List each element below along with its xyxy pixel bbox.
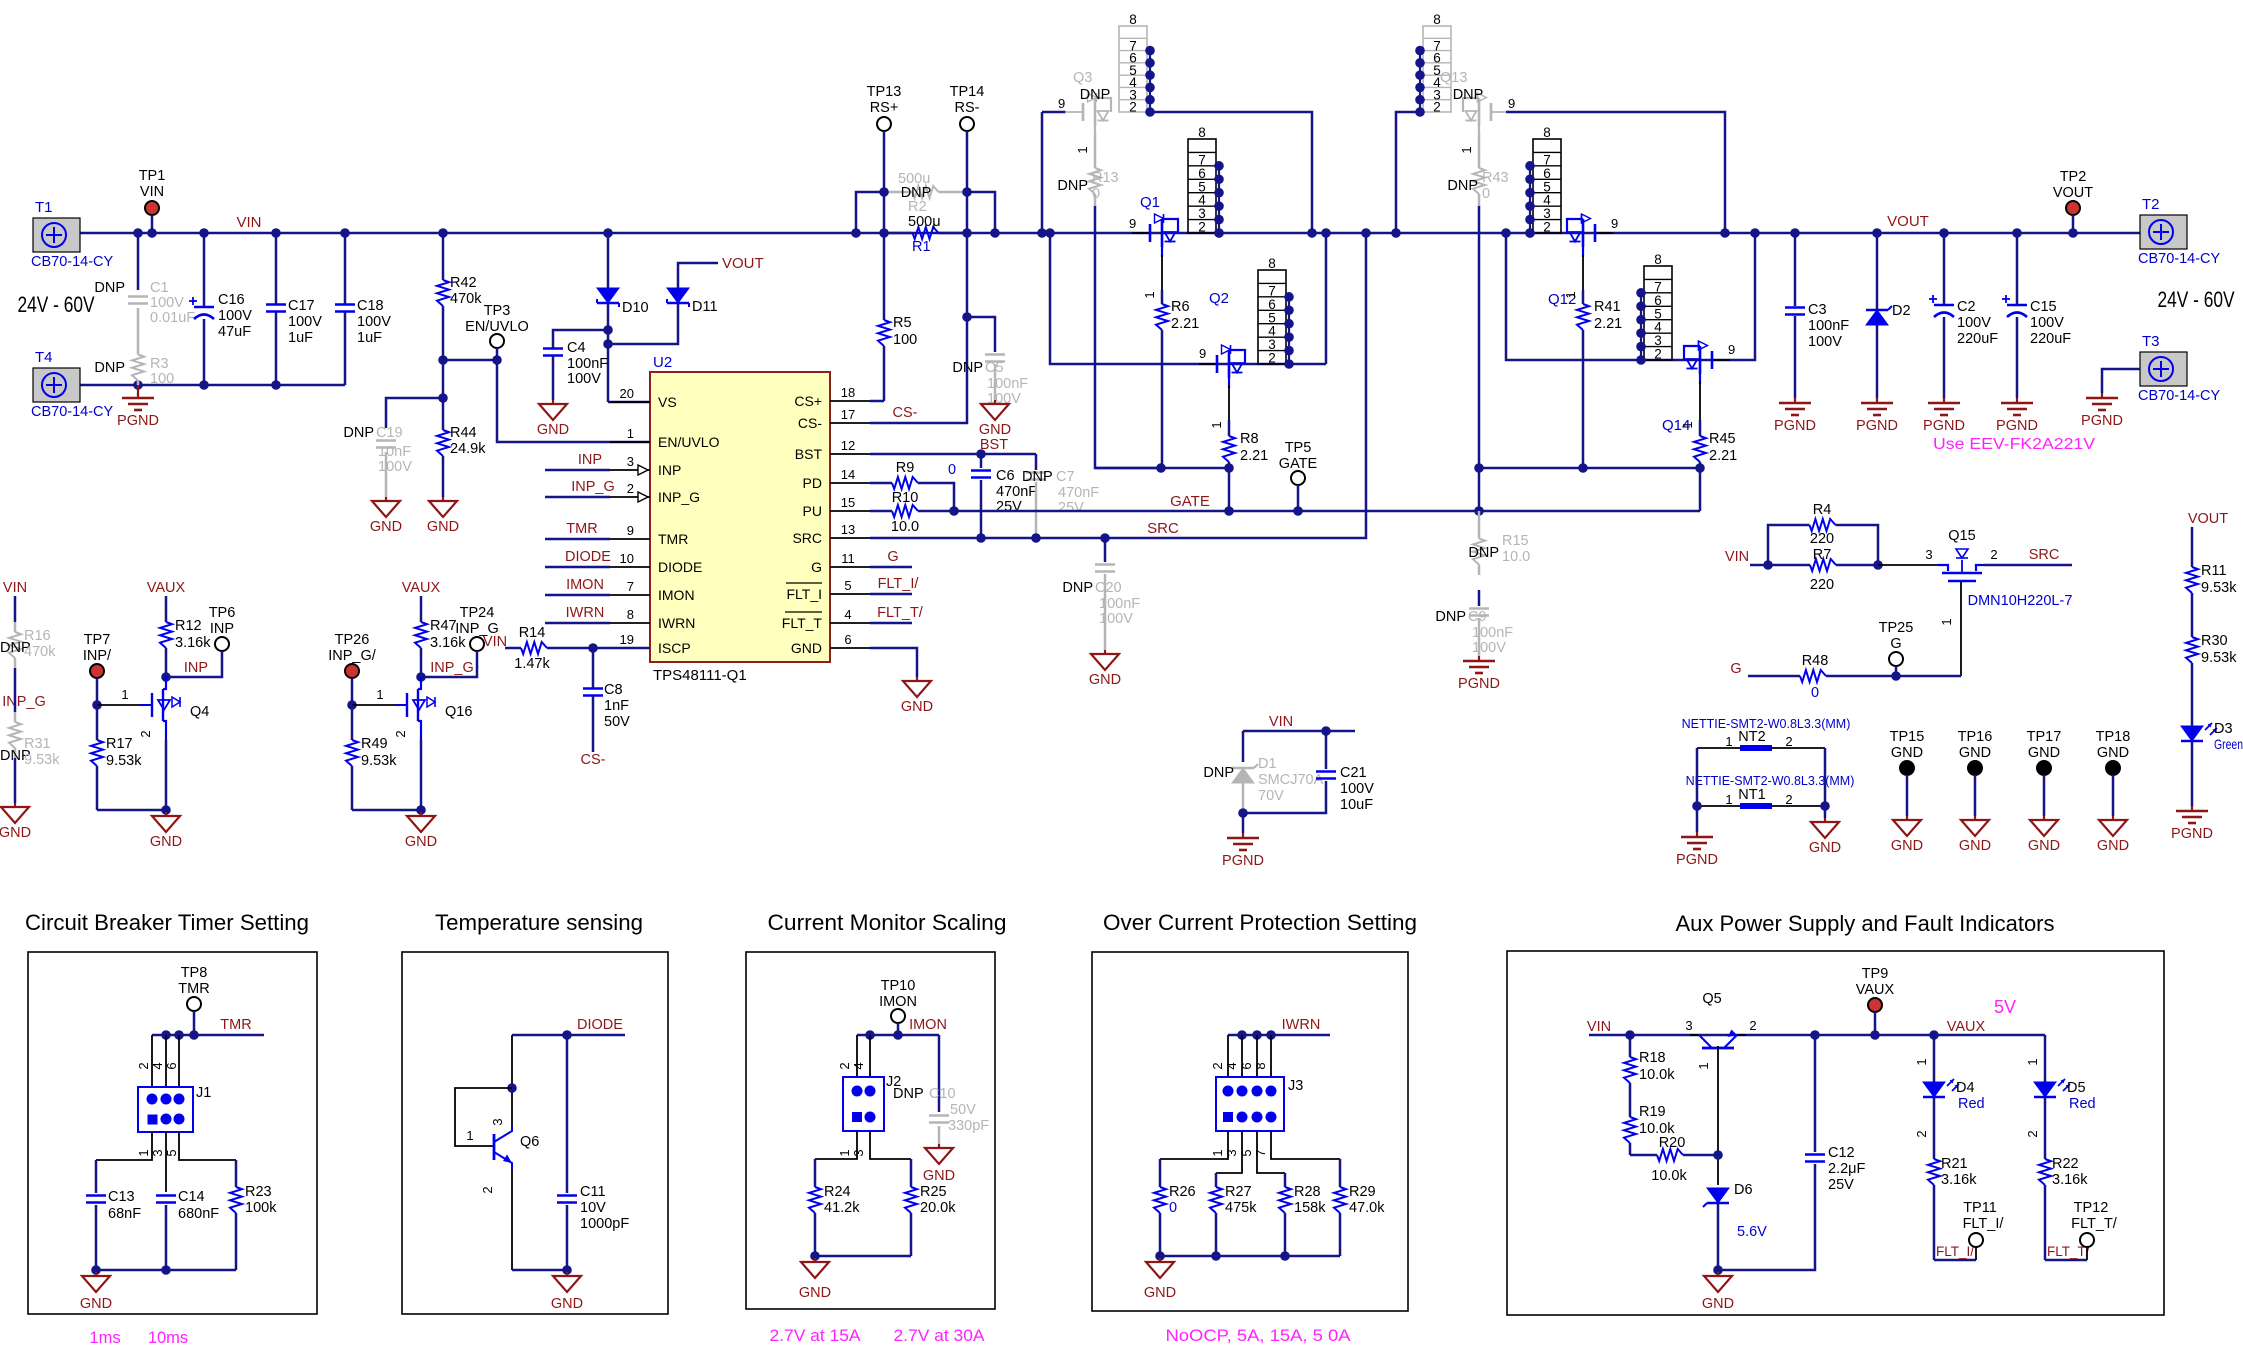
svg-text:2.7V at 15A: 2.7V at 15A: [770, 1327, 861, 1345]
gnd rail box2: [512, 1269, 567, 1272]
resistor R20 10.0k: [1630, 1154, 1657, 1157]
svg-text:Q6: Q6: [520, 1134, 539, 1150]
svg-text:50V: 50V: [604, 714, 630, 730]
svg-text:GND: GND: [537, 422, 569, 438]
ground PGND under C3: [1794, 398, 1796, 403]
resistor R29 47.0k: [1339, 1159, 1342, 1187]
resistor R28 158k: [1284, 1173, 1287, 1187]
svg-text:47uF: 47uF: [218, 324, 251, 340]
capacitor C1 DNP / resistor R3 DNP column: [133, 228, 143, 238]
svg-text:R15: R15: [1502, 533, 1529, 549]
svg-text:PGND: PGND: [117, 413, 159, 429]
svg-text:158k: 158k: [1294, 1200, 1326, 1216]
svg-text:2: 2: [1654, 347, 1662, 362]
svg-text:TP12: TP12: [2074, 1200, 2109, 1216]
svg-text:PU: PU: [803, 503, 822, 519]
svg-text:Q15: Q15: [1948, 528, 1975, 544]
svg-text:R47: R47: [430, 618, 457, 634]
svg-text:10V: 10V: [580, 1200, 606, 1216]
svg-text:IWRN: IWRN: [1282, 1017, 1321, 1033]
svg-text:Temperature sensing: Temperature sensing: [435, 910, 643, 935]
resistor R49 9.53k: [351, 705, 354, 740]
svg-text:9: 9: [1611, 216, 1618, 231]
svg-text:100V: 100V: [218, 308, 252, 324]
svg-text:CB70-14-CY: CB70-14-CY: [2138, 388, 2221, 404]
svg-text:R16: R16: [24, 628, 51, 644]
IC U2 TPS48111-Q1 body: [650, 372, 830, 662]
svg-text:5: 5: [844, 578, 851, 593]
svg-text:6: 6: [844, 632, 851, 647]
resistor R26 0: [1159, 1159, 1162, 1187]
resistor R18 10.0k: [1629, 1035, 1632, 1057]
svg-text:GND: GND: [405, 834, 437, 850]
svg-text:2.21: 2.21: [1594, 316, 1622, 332]
svg-text:DMN10H220L-7: DMN10H220L-7: [1968, 593, 2073, 609]
header H3 (Q3 gate resistor header, DNP): [1119, 26, 1147, 112]
svg-text:10.0: 10.0: [1502, 549, 1530, 565]
resistor R30 9.53k: [2191, 626, 2194, 637]
svg-text:TMR: TMR: [566, 521, 597, 537]
svg-text:DIODE: DIODE: [658, 559, 702, 575]
svg-text:VOUT: VOUT: [2188, 511, 2228, 527]
svg-text:1: 1: [136, 1149, 151, 1156]
svg-text:VIN: VIN: [1587, 1019, 1611, 1035]
svg-text:6: 6: [1239, 1062, 1254, 1069]
svg-text:T3: T3: [2142, 333, 2160, 350]
svg-text:FLT_I/: FLT_I/: [878, 576, 920, 592]
diode D10: [603, 228, 613, 238]
ground PGND near T3: [2101, 393, 2103, 398]
svg-text:R25: R25: [920, 1184, 947, 1200]
svg-text:1: 1: [466, 1128, 473, 1143]
svg-text:0: 0: [1482, 186, 1490, 202]
capacitor C21 10uF: [1325, 731, 1328, 769]
svg-text:NT1: NT1: [1738, 787, 1765, 803]
svg-text:25V: 25V: [996, 499, 1022, 515]
svg-text:R12: R12: [175, 618, 202, 634]
svg-text:10ms: 10ms: [148, 1329, 188, 1347]
svg-text:9: 9: [627, 523, 634, 538]
svg-text:1: 1: [1142, 291, 1157, 298]
wire 468 line B: [1479, 467, 1700, 470]
svg-text:9.53k: 9.53k: [106, 753, 142, 769]
svg-text:GND: GND: [2028, 838, 2060, 854]
svg-text:1: 1: [837, 1149, 852, 1156]
svg-text:C5: C5: [985, 360, 1004, 376]
header H12: [1533, 139, 1561, 233]
svg-text:12: 12: [841, 438, 855, 453]
svg-text:GND: GND: [2097, 838, 2129, 854]
net IMON stub: [545, 594, 610, 597]
svg-text:2: 2: [1785, 734, 1792, 749]
capacitor C11 1000pF: [566, 1035, 569, 1193]
svg-text:2: 2: [2025, 1130, 2040, 1137]
svg-text:DNP: DNP: [1062, 580, 1093, 596]
svg-text:8: 8: [627, 607, 634, 622]
svg-text:GND: GND: [150, 834, 182, 850]
svg-text:SRC: SRC: [792, 530, 822, 546]
svg-text:D10: D10: [622, 300, 649, 316]
svg-text:R10: R10: [892, 490, 919, 506]
net FLT_I/ TP11: [1934, 1259, 1976, 1262]
svg-text:24V - 60V: 24V - 60V: [18, 292, 95, 317]
svg-text:PGND: PGND: [2171, 826, 2213, 842]
svg-text:R5: R5: [893, 315, 912, 331]
svg-text:FLT_T: FLT_T: [782, 615, 823, 631]
svg-text:2: 2: [1210, 1062, 1225, 1069]
svg-text:100nF: 100nF: [1808, 318, 1849, 334]
svg-text:15: 15: [841, 495, 855, 510]
svg-text:PGND: PGND: [1996, 418, 2038, 434]
svg-text:FLT_I: FLT_I: [786, 586, 822, 602]
svg-text:C9: C9: [1468, 609, 1487, 625]
svg-text:GND: GND: [979, 422, 1011, 438]
svg-text:IWRN: IWRN: [566, 605, 605, 621]
header H1: [1188, 139, 1216, 233]
svg-text:0.01uF: 0.01uF: [150, 310, 195, 326]
svg-text:2: 2: [136, 1062, 151, 1069]
svg-text:4: 4: [150, 1062, 165, 1069]
svg-text:D3: D3: [2214, 721, 2233, 737]
svg-text:10.0k: 10.0k: [1651, 1168, 1687, 1184]
svg-text:20.0k: 20.0k: [920, 1200, 956, 1216]
svg-text:9: 9: [1508, 96, 1515, 111]
svg-text:NETTIE-SMT2-W0.8L3.3(MM): NETTIE-SMT2-W0.8L3.3(MM): [1682, 717, 1851, 731]
svg-text:C21: C21: [1340, 765, 1367, 781]
svg-text:VIN: VIN: [1725, 549, 1749, 565]
svg-text:DNP: DNP: [343, 425, 374, 441]
svg-text:INP_G: INP_G: [571, 479, 615, 495]
svg-text:0: 0: [948, 462, 956, 478]
svg-text:R1: R1: [912, 239, 931, 255]
svg-text:3: 3: [1925, 547, 1932, 562]
connector T4: [33, 368, 80, 402]
ground GND under NT1 right: [1824, 818, 1826, 822]
diode D1 DNP: [1242, 731, 1245, 762]
svg-text:8: 8: [1253, 1062, 1268, 1069]
svg-text:100: 100: [893, 332, 917, 348]
svg-text:470nF: 470nF: [1058, 485, 1099, 501]
svg-text:G: G: [887, 549, 898, 565]
svg-text:D2: D2: [1892, 303, 1911, 319]
svg-text:C2: C2: [1957, 299, 1976, 315]
resistor R6 2.21: [1161, 255, 1163, 290]
wire Q15 drain to SRC: [1984, 564, 2072, 567]
svg-text:R9: R9: [896, 460, 915, 476]
svg-text:CB70-14-CY: CB70-14-CY: [31, 404, 114, 420]
svg-text:INP: INP: [578, 452, 602, 468]
svg-text:Over Current Protection Settin: Over Current Protection Setting: [1103, 910, 1417, 935]
svg-text:330pF: 330pF: [948, 1118, 989, 1134]
svg-text:D4: D4: [1956, 1080, 1975, 1096]
capacitor C10 DNP: [938, 1035, 941, 1112]
svg-text:100V: 100V: [357, 314, 391, 330]
svg-text:C6: C6: [996, 468, 1015, 484]
net FLT_T/ stub: [870, 622, 912, 625]
svg-text:TP5: TP5: [1285, 440, 1312, 456]
svg-text:9.53k: 9.53k: [2201, 650, 2237, 666]
svg-text:R41: R41: [1594, 299, 1621, 315]
svg-text:68nF: 68nF: [108, 1206, 141, 1222]
wire EN/UVLO to U2 pin1: [497, 360, 650, 442]
svg-text:C11: C11: [580, 1184, 606, 1200]
svg-text:R13: R13: [1092, 170, 1119, 186]
svg-text:5V: 5V: [1994, 997, 2016, 1017]
transistor Q13 DNP: [1491, 111, 1509, 113]
svg-text:R43: R43: [1482, 170, 1509, 186]
svg-text:GND: GND: [1144, 1285, 1176, 1301]
svg-text:25V: 25V: [1828, 1177, 1854, 1193]
svg-text:R44: R44: [450, 425, 477, 441]
svg-text:R28: R28: [1294, 1184, 1321, 1200]
resistor R13 DNP 0: [1094, 134, 1097, 158]
svg-text:2.21: 2.21: [1709, 448, 1737, 464]
svg-text:17: 17: [841, 407, 855, 422]
svg-text:TP14: TP14: [950, 84, 985, 100]
svg-text:TP17: TP17: [2027, 729, 2062, 745]
svg-text:3: 3: [627, 454, 634, 469]
resistor R45 2.21: [1699, 382, 1701, 420]
svg-text:2: 2: [1785, 792, 1792, 807]
svg-text:VOUT: VOUT: [722, 255, 764, 272]
wire 468 line A: [1095, 467, 1229, 470]
svg-text:0: 0: [1169, 1200, 1177, 1216]
svg-text:T4: T4: [35, 349, 53, 366]
gnd rail box4: [1160, 1255, 1340, 1258]
svg-text:0: 0: [1811, 685, 1819, 701]
svg-text:R17: R17: [106, 736, 133, 752]
svg-text:SRC: SRC: [2029, 547, 2060, 563]
svg-text:GATE: GATE: [1170, 493, 1210, 510]
capacitor C8 1nF: [592, 648, 595, 688]
svg-text:IMON: IMON: [658, 587, 695, 603]
capacitor C5 DNP: [967, 317, 995, 352]
capacitor C3 100nF: [1790, 228, 1800, 238]
svg-text:FLT_I/: FLT_I/: [1936, 1244, 1974, 1259]
svg-text:R14: R14: [519, 625, 546, 641]
svg-text:FLT_T/: FLT_T/: [2071, 1216, 2118, 1232]
svg-text:C4: C4: [567, 340, 586, 356]
header H14: [1644, 266, 1672, 360]
svg-text:D11: D11: [692, 299, 718, 315]
capacitor C7 DNP: [1035, 454, 1038, 470]
svg-text:470k: 470k: [450, 291, 482, 307]
svg-text:GND: GND: [799, 1285, 831, 1301]
svg-text:100nF: 100nF: [567, 356, 608, 372]
svg-text:100nF: 100nF: [987, 376, 1028, 392]
svg-text:TMR: TMR: [178, 981, 209, 997]
svg-text:DNP: DNP: [1022, 469, 1053, 485]
wire main VIN rail: [80, 232, 2140, 235]
svg-text:IMON: IMON: [879, 994, 917, 1010]
svg-text:100V: 100V: [378, 459, 412, 475]
svg-text:100V: 100V: [567, 371, 601, 387]
svg-text:R18: R18: [1639, 1050, 1666, 1066]
svg-text:PGND: PGND: [1774, 418, 1816, 434]
svg-text:RS+: RS+: [870, 100, 899, 116]
svg-text:DNP: DNP: [893, 1086, 924, 1102]
svg-text:8: 8: [1198, 125, 1206, 140]
svg-text:PD: PD: [803, 475, 822, 491]
ground GND left column: [14, 803, 16, 807]
svg-text:R31: R31: [24, 736, 51, 752]
svg-text:475k: 475k: [1225, 1200, 1257, 1216]
svg-text:DNP: DNP: [94, 360, 125, 376]
resistor R2 DNP 500u: [856, 192, 884, 233]
svg-text:4: 4: [844, 607, 851, 622]
transistor Q15 DMN10H220L-7: [1878, 564, 1938, 566]
svg-text:TP25: TP25: [1879, 620, 1914, 636]
ground GND under U2 pin6: [870, 648, 917, 677]
svg-text:C7: C7: [1056, 469, 1075, 485]
net IWRN stub: [545, 622, 610, 625]
svg-text:G: G: [1890, 636, 1901, 652]
svg-text:VIN: VIN: [236, 214, 261, 231]
resistor R1 500u shunt: [851, 228, 861, 238]
svg-text:500μ: 500μ: [908, 214, 941, 230]
svg-text:G: G: [1730, 661, 1741, 677]
svg-text:18: 18: [841, 385, 855, 400]
svg-text:1.47k: 1.47k: [514, 656, 550, 672]
svg-text:Q13: Q13: [1440, 70, 1467, 86]
svg-text:G: G: [811, 559, 822, 575]
capacitor C20 DNP on SRC: [1104, 538, 1107, 562]
net TMR stub: [545, 538, 610, 541]
diode D6 zener 5.6V: [1707, 1188, 1729, 1203]
wire Q4 source to gnd: [165, 740, 168, 810]
capacitor C12 2.2uF: [1814, 1035, 1817, 1152]
resistor R10 10.0 on PU: [870, 510, 892, 513]
svg-text:2: 2: [1433, 100, 1441, 115]
resistor R11 9.53k: [2191, 556, 2194, 567]
svg-text:1: 1: [1725, 792, 1732, 807]
svg-text:GND: GND: [1089, 672, 1121, 688]
svg-text:2: 2: [1543, 220, 1551, 235]
svg-text:1: 1: [1725, 734, 1732, 749]
resistor R7 220: [1768, 564, 1810, 567]
svg-text:C18: C18: [357, 298, 384, 314]
svg-text:1uF: 1uF: [288, 330, 313, 346]
capacitor C19 DNP branch: [438, 393, 448, 403]
svg-text:1: 1: [627, 426, 634, 441]
ground GND under C5: [994, 400, 996, 404]
svg-text:Q2: Q2: [1209, 290, 1229, 307]
svg-text:RS-: RS-: [955, 100, 980, 116]
svg-text:PGND: PGND: [2081, 413, 2123, 429]
svg-text:4: 4: [1224, 1062, 1239, 1069]
svg-text:NETTIE-SMT2-W0.8L3.3(MM): NETTIE-SMT2-W0.8L3.3(MM): [1686, 774, 1855, 788]
svg-text:GND: GND: [2097, 745, 2129, 761]
svg-text:20: 20: [620, 386, 634, 401]
node EN/UVLO junction: [438, 355, 448, 365]
svg-text:C12: C12: [1828, 1145, 1855, 1161]
net GATE long wire: [954, 510, 1700, 513]
net INP_G stub: [545, 496, 610, 499]
svg-text:R2: R2: [908, 199, 927, 215]
svg-text:2: 2: [1198, 220, 1206, 235]
svg-text:IMON: IMON: [909, 1017, 947, 1033]
svg-text:NoOCP, 5A, 15A, 5 0A: NoOCP, 5A, 15A, 5 0A: [1166, 1327, 1351, 1345]
svg-text:2.21: 2.21: [1240, 448, 1268, 464]
svg-text:7: 7: [1253, 1149, 1268, 1156]
svg-text:INP_G: INP_G: [658, 489, 700, 505]
svg-text:9: 9: [1728, 342, 1735, 357]
capacitor C2 220uF: [1939, 228, 1949, 238]
svg-text:PGND: PGND: [1856, 418, 1898, 434]
svg-text:2.2μF: 2.2μF: [1828, 1161, 1866, 1177]
svg-text:24.9k: 24.9k: [450, 441, 486, 457]
svg-text:R23: R23: [245, 1184, 272, 1200]
svg-text:470nF: 470nF: [996, 484, 1037, 500]
capacitor C16 47uF: [199, 228, 209, 238]
svg-text:10nF: 10nF: [378, 444, 411, 460]
svg-text:1: 1: [1459, 146, 1474, 153]
svg-text:R48: R48: [1802, 653, 1829, 669]
net DIODE wire: [512, 1034, 625, 1037]
svg-text:1: 1: [1680, 421, 1695, 428]
resistor R17 9.53k: [96, 705, 99, 740]
svg-text:CS+: CS+: [794, 393, 822, 409]
ground GND under C19: [385, 497, 387, 501]
svg-text:3.16k: 3.16k: [2052, 1172, 2088, 1188]
svg-text:GND: GND: [1702, 1296, 1734, 1312]
svg-text:1: 1: [1075, 146, 1090, 153]
resistor R22 3.16k: [2044, 1150, 2047, 1159]
svg-text:NT2: NT2: [1738, 729, 1765, 745]
svg-text:1uF: 1uF: [357, 330, 382, 346]
svg-text:9: 9: [1129, 216, 1136, 231]
svg-text:R42: R42: [450, 275, 477, 291]
transistor Q6: [511, 1035, 513, 1125]
svg-text:DNP: DNP: [1080, 87, 1111, 103]
svg-text:220: 220: [1810, 531, 1834, 547]
svg-text:R45: R45: [1709, 431, 1736, 447]
svg-text:VAUX: VAUX: [1856, 982, 1895, 998]
resistor R42 470k: [438, 228, 448, 238]
svg-text:R30: R30: [2201, 633, 2228, 649]
svg-text:C20: C20: [1095, 580, 1122, 596]
svg-text:1: 1: [1914, 1058, 1929, 1065]
svg-text:3: 3: [490, 1118, 505, 1125]
svg-text:Red: Red: [1958, 1096, 1985, 1112]
svg-text:DNP: DNP: [1435, 609, 1466, 625]
svg-text:DIODE: DIODE: [565, 549, 611, 565]
jumper J2: [856, 1035, 858, 1077]
svg-text:C10: C10: [929, 1086, 956, 1102]
svg-text:SRC: SRC: [1147, 520, 1179, 537]
svg-text:VIN: VIN: [140, 184, 164, 200]
ground GND under C20: [1104, 650, 1106, 654]
svg-text:GATE: GATE: [1279, 456, 1318, 472]
svg-text:CB70-14-CY: CB70-14-CY: [2138, 251, 2221, 267]
svg-text:1: 1: [1939, 618, 1954, 625]
svg-text:1: 1: [1563, 291, 1578, 298]
net FLT_T/ TP12: [2045, 1259, 2087, 1262]
svg-text:100: 100: [150, 371, 174, 387]
svg-text:3.16k: 3.16k: [175, 635, 211, 651]
svg-text:2: 2: [1749, 1018, 1756, 1033]
svg-text:D6: D6: [1734, 1182, 1753, 1198]
svg-text:PGND: PGND: [1458, 676, 1500, 692]
svg-text:C16: C16: [218, 292, 245, 308]
svg-text:70V: 70V: [1258, 788, 1284, 804]
svg-text:1nF: 1nF: [604, 698, 629, 714]
svg-text:PGND: PGND: [1676, 852, 1718, 868]
svg-text:R19: R19: [1639, 1104, 1666, 1120]
svg-text:Q3: Q3: [1073, 70, 1092, 86]
svg-text:IMON: IMON: [566, 577, 604, 593]
svg-text:INP_G: INP_G: [455, 621, 499, 637]
